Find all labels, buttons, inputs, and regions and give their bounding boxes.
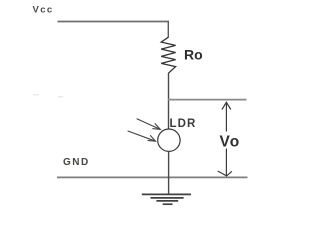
svg-text:Vo: Vo (220, 134, 241, 151)
Vo measurement arrow (double-headed) (218, 102, 232, 176)
wire top horizontal from Vcc (58, 21, 170, 23)
svg-text:LDR: LDR (170, 118, 197, 130)
light arrow 2 into LDR (128, 131, 156, 141)
ground symbol (142, 194, 191, 204)
wire vertical from top wire to resistor (167, 21, 169, 38)
svg-text:Ro: Ro (184, 47, 203, 63)
wire from LDR down to ground (168, 151, 170, 194)
faint artifact dots (33, 94, 39, 95)
svg-text:GND: GND (63, 157, 90, 168)
wire GND horizontal rail (57, 176, 248, 178)
light arrow 1 into LDR (137, 119, 161, 130)
svg-text:Vcc: Vcc (33, 5, 54, 16)
LDR photoresistor body (158, 129, 180, 151)
wire branch to Vo (horizontal) (168, 99, 247, 101)
wire from resistor down to LDR (168, 73, 170, 130)
resistor Ro (161, 37, 175, 73)
